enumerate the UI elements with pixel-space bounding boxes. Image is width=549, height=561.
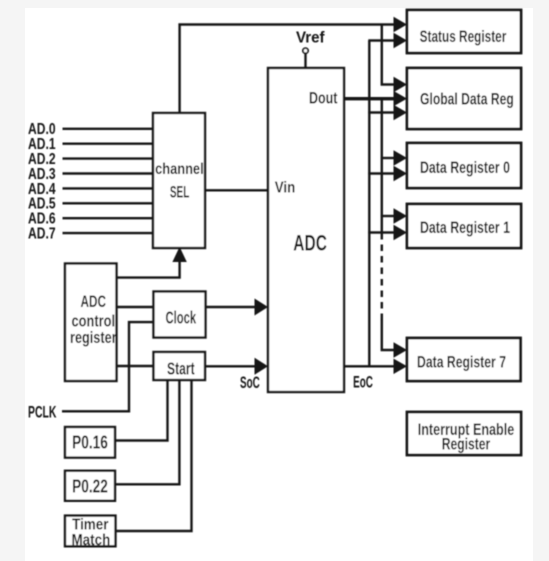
- wire: Vin from channel SEL to ADC: [205, 189, 268, 191]
- arrowhead into Data Register 1 (input 1): [394, 208, 408, 223]
- svg-text:SEL: SEL: [170, 184, 190, 202]
- wire: AD.5 input: [63, 202, 154, 204]
- arrowhead into Data Register 1 (input 2): [394, 225, 408, 240]
- wire: AD.6 input: [63, 217, 154, 219]
- wire: Timer Match to Start: [116, 380, 192, 531]
- wire: Dout branch to Data Register 1 input 1: [381, 215, 395, 217]
- svg-text:Clock: Clock: [166, 308, 197, 328]
- arrowhead into Status Register (input 1): [394, 17, 408, 32]
- wire: Dout branch to Data Register 7 input 1: [382, 319, 395, 350]
- block: Timer Match: [65, 516, 116, 547]
- block: P0.22: [65, 471, 115, 501]
- wire: vertical branch to Global Data Reg input 1: [382, 24, 395, 85]
- svg-text:channel: channel: [155, 161, 204, 178]
- wire: P0.22 to Start: [115, 380, 179, 484]
- svg-text:Data Register 1: Data Register 1: [420, 218, 510, 237]
- wire: Vref stub into ADC top: [304, 53, 306, 68]
- arrowhead into ADC (SoC): [255, 358, 269, 375]
- arrowhead into Data Register 7 (input 2): [394, 359, 408, 374]
- wire: Start to ADC (SoC): [205, 365, 255, 367]
- svg-text:control: control: [72, 313, 116, 331]
- block: Status Register: [407, 10, 521, 53]
- wire: AD.4 input: [63, 187, 154, 189]
- wire: EoC branch to Data Register 1 input 2: [368, 231, 395, 233]
- block: Global Data Reg: [407, 68, 521, 129]
- svg-text:ADC: ADC: [293, 231, 327, 256]
- svg-text:Start: Start: [167, 359, 195, 379]
- arrowhead into Data Register 0 (input 2): [394, 166, 408, 181]
- svg-text:Global Data Reg: Global Data Reg: [420, 90, 514, 109]
- arrowhead up into channel SEL: [172, 247, 186, 262]
- wire: EoC branch to Status Register input 2: [368, 39, 395, 41]
- wire: Clock to ADC: [206, 306, 256, 308]
- wire: AD.0 input: [63, 128, 154, 130]
- wire: AD.3 input: [63, 172, 154, 174]
- arrowhead into Status Register (input 2): [394, 33, 408, 48]
- wire: P0.16 to Start: [115, 380, 168, 441]
- wire: EoC branch to Global Data Reg input 3: [368, 111, 395, 113]
- svg-text:Vin: Vin: [275, 179, 296, 196]
- arrowhead into Global Data Reg (input 3): [394, 105, 408, 120]
- wire: PCLK to Clock: [62, 322, 154, 411]
- wire: channel SEL top to Status Register (net SEL-STATUS): [180, 25, 395, 114]
- svg-text:SoC: SoC: [240, 373, 260, 392]
- block: Start: [154, 352, 206, 380]
- wire: ADC control register to channel SEL: [117, 262, 180, 278]
- svg-text:Dout: Dout: [309, 88, 338, 107]
- wire: AD.7 input: [63, 232, 154, 234]
- block: P0.16: [65, 427, 115, 458]
- svg-text:Match: Match: [71, 532, 110, 549]
- wire: Dout bus vertical dashed part: [381, 237, 383, 320]
- wire: ADC control register to Clock: [117, 306, 154, 308]
- svg-text:register: register: [70, 329, 117, 347]
- wire: AD.2 input: [63, 157, 154, 159]
- svg-text:EoC: EoC: [353, 373, 373, 392]
- block: Clock: [154, 292, 206, 338]
- wire: EoC branch to Data Register 0 input 2: [368, 172, 395, 174]
- arrowhead into Data Register 0 (input 1): [394, 150, 408, 165]
- svg-text:AD.7: AD.7: [28, 226, 56, 243]
- block: Data Register 0: [407, 143, 521, 188]
- svg-text:ADC: ADC: [81, 293, 107, 311]
- svg-text:Data Register 0: Data Register 0: [420, 158, 510, 177]
- arrowhead into ADC (clock): [255, 299, 269, 316]
- block: Interrupt Enable Register: [407, 412, 521, 455]
- arrowhead into Global Data Reg (input 1): [394, 77, 408, 92]
- svg-text:Vref: Vref: [296, 30, 325, 47]
- svg-text:Register: Register: [442, 435, 491, 454]
- block: Data Register 1: [407, 204, 521, 248]
- block: ADC control register: [65, 264, 117, 382]
- wire: AD.1 input: [63, 142, 154, 144]
- wire: Dout line from ADC to Global Data Reg input 2 (net DOUT): [344, 97, 395, 100]
- svg-text:P0.22: P0.22: [72, 477, 108, 497]
- svg-text:PCLK: PCLK: [28, 402, 57, 421]
- svg-text:P0.16: P0.16: [72, 433, 108, 453]
- svg-text:Data Register 7: Data Register 7: [417, 353, 506, 372]
- wire: Dout branch to Data Register 0 input 1: [381, 157, 395, 159]
- wire: ADC control register to Start: [117, 365, 154, 367]
- block: Data Register 7: [407, 338, 521, 381]
- wire: Dout bus vertical solid part: [381, 99, 383, 237]
- arrowhead into Global Data Reg (input 2): [394, 91, 408, 106]
- terminal: Vref open circle: [303, 48, 308, 53]
- block: ADC: [268, 68, 344, 392]
- block: channel SEL: [153, 113, 205, 248]
- wire: EoC bus vertical (net EOC): [368, 41, 370, 367]
- wire: EoC output from ADC to Data Register 7 input 2: [344, 365, 395, 367]
- arrowhead into Data Register 7 (input 1): [394, 342, 408, 357]
- svg-text:Status Register: Status Register: [420, 27, 507, 46]
